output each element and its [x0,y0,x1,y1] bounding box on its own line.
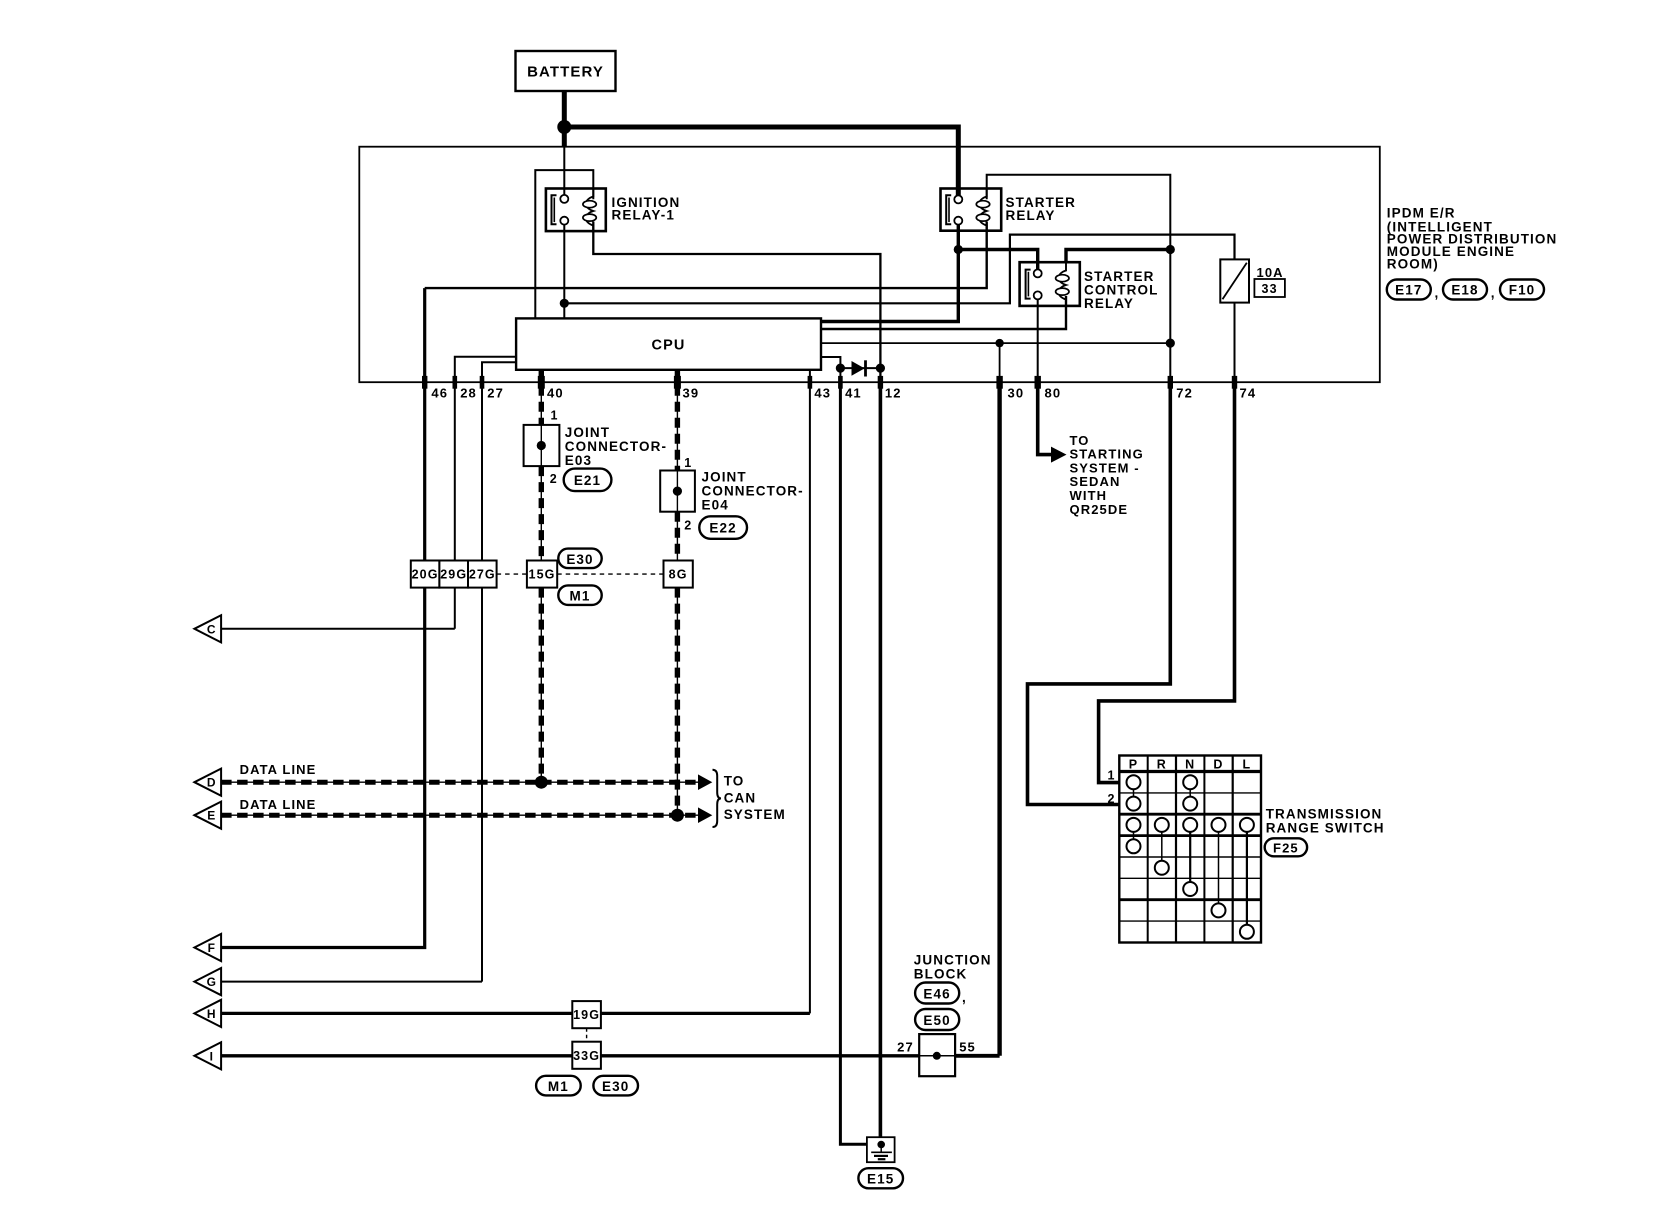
svg-text:L: L [1243,757,1252,771]
svg-text:E04: E04 [702,497,729,512]
svg-text:12: 12 [885,385,902,400]
switch contact links [1133,789,1135,796]
wire pin 72 lower to range switch row 2 [1028,382,1171,804]
fuse F 10A [1220,259,1285,302]
svg-text:F10: F10 [1509,283,1536,298]
junction block label [914,952,992,981]
junction node pin39-E [671,809,684,822]
IPDM E/R label block [1387,206,1558,272]
connector ref F10 [1500,280,1544,300]
svg-text:27: 27 [897,1040,914,1055]
junction node pin40-D [535,776,548,789]
wire fuse feed [564,235,1234,304]
svg-text:TO: TO [1070,433,1090,448]
svg-text:CONNECTOR-: CONNECTOR- [702,483,804,498]
triangle connector D [194,769,221,796]
svg-text:E: E [207,809,216,823]
wire starter relay coil top to pin 72 net [987,175,1171,382]
starter control relay STARTER CONTROL RELAY [1020,262,1159,311]
ignition relay IGNITION RELAY-1 [546,189,680,232]
svg-text:30: 30 [1008,385,1025,400]
transmission range switch F25 [1107,756,1261,943]
svg-text:SYSTEM -: SYSTEM - [1070,460,1140,475]
connector ref M1 upper [558,585,601,605]
wire CAN data line D [221,774,712,790]
connector ref E30 upper [558,549,601,569]
pin 74 [1232,376,1256,400]
connector ref E22 [699,516,747,539]
battery B1 [516,51,616,91]
svg-text:RELAY-1: RELAY-1 [612,207,675,222]
svg-text:E30: E30 [566,552,593,567]
svg-text:74: 74 [1240,385,1257,400]
svg-text:27: 27 [487,385,504,400]
connector ref E46 [915,983,967,1006]
wire starter control relay coil bottom to CPU [821,296,1066,329]
svg-text:IPDM E/R: IPDM E/R [1387,206,1456,221]
wire ignition relay contact feed [563,147,565,195]
svg-text:E21: E21 [574,473,601,488]
connector ref E30 lower [593,1076,638,1096]
wire pin 30 lower [997,382,1001,1056]
joint connector E04 [660,456,804,533]
svg-text:P: P [1129,757,1138,771]
transmission range switch label [1266,807,1385,836]
svg-text:G: G [207,975,217,989]
svg-text:2: 2 [550,472,558,486]
svg-text:F25: F25 [1273,840,1299,855]
junction node pin 72 tap [1166,339,1175,348]
wire junction block to pin 30 [955,1054,1000,1058]
pin 72 [1168,376,1193,400]
wire CPU to pin 30 / pin 72 [821,342,1170,344]
svg-text:1: 1 [551,409,559,423]
svg-text:15G: 15G [529,568,556,582]
wire pin 46 net to triangle F [423,288,426,382]
svg-text:40: 40 [547,385,564,400]
wire starter contact to starter control relay contact [958,250,1037,270]
wire dashed link 27G-15G [497,573,527,575]
svg-text:8G: 8G [669,568,688,582]
svg-text:BATTERY: BATTERY [527,64,604,81]
pin 80 [1035,376,1062,400]
svg-text:80: 80 [1045,385,1062,400]
junction node diode anode [836,364,845,373]
ground terminal 33G [572,1042,601,1069]
svg-text:RELAY: RELAY [1006,208,1056,223]
junction battery node [557,120,571,134]
wire pin 43 [809,370,811,1014]
svg-text:1: 1 [1107,769,1115,783]
switch contact circles [1127,775,1141,789]
wire CAN data line E [221,807,712,823]
svg-text:DATA LINE: DATA LINE [240,762,317,777]
wire starter control relay contact bottom to pin 80 [1037,299,1039,382]
junction node pin 12 net [876,364,885,373]
svg-text:1: 1 [684,456,692,470]
wire ignition relay coil bottom to pin 12 net [593,222,880,383]
svg-text:27G: 27G [469,568,496,582]
pin 46 [422,376,448,400]
wire ignition relay coil top to CPU [535,170,593,318]
connector ref E18 [1443,280,1496,301]
wire pin 41 lower [839,368,841,382]
wire dashed link 19G-33G [586,1028,588,1042]
svg-text:ROOM): ROOM) [1387,257,1439,272]
ground terminal 29G [439,561,468,588]
svg-text:29G: 29G [440,568,467,582]
ground terminal 15G [527,561,557,588]
svg-text:43: 43 [814,385,831,400]
wire battery feed [562,91,567,147]
brace to CAN system [713,770,722,827]
junction node battery-fuse branch [560,299,569,308]
wire pin 12 lower to ground [879,382,883,1144]
svg-text:RANGE SWITCH: RANGE SWITCH [1266,820,1385,835]
wire CPU to diode [821,357,840,368]
svg-text:M1: M1 [548,1079,569,1094]
ground terminal 20G [411,561,440,588]
wire fuse bottom to pin 74 [1234,303,1236,383]
ground terminal 8G [664,561,693,588]
wire triangle G to pin 27 [221,981,482,983]
triangle connector I [194,1042,221,1069]
svg-text:28: 28 [460,385,477,400]
svg-text:,: , [1435,286,1440,301]
svg-text:E22: E22 [709,521,736,536]
triangle connector C [194,615,221,642]
svg-text:JOINT: JOINT [702,469,747,484]
IPDM E/R enclosure box [359,147,1380,383]
svg-text:2: 2 [684,519,692,533]
wire CPU left to pin 27 [482,362,516,981]
diode D1 [852,360,866,376]
svg-text:CONNECTOR-: CONNECTOR- [565,439,667,454]
pin 28 [453,376,477,400]
ground G E15 [867,1137,895,1162]
pin 39 [674,376,699,400]
svg-text:I: I [210,1049,214,1063]
wire dashed link 15G-8G [557,573,663,575]
connector ref E50 [915,1009,959,1030]
svg-text:RELAY: RELAY [1084,296,1134,311]
wire starter relay contact bottom [821,225,958,322]
pin 27 [480,376,504,400]
junction node starter contact branch [954,245,963,254]
svg-text:E50: E50 [923,1013,950,1028]
CPU U1 [516,318,821,369]
pin 40 [538,376,564,400]
junction node pin 30 tap [995,339,1003,347]
junction node pin72-coil [1166,245,1175,254]
svg-text:E46: E46 [923,987,950,1002]
svg-text:19G: 19G [573,1008,600,1022]
pin 30 [996,376,1024,400]
wire CPU left to pin 28 [455,357,516,629]
triangle connector E [194,802,221,829]
svg-text:E15: E15 [867,1172,894,1187]
svg-text:TO: TO [724,774,745,789]
svg-text:R: R [1157,757,1167,771]
svg-text:,: , [962,990,967,1005]
connector ref E15 [858,1168,903,1188]
wire diode link [840,367,880,369]
svg-text:10A: 10A [1257,265,1284,280]
pin 41 [838,376,862,400]
wire pin 74 lower to range switch row 1 [1099,382,1235,782]
connector ref E21 [564,469,612,492]
svg-text:,: , [1491,286,1496,301]
svg-text:SYSTEM: SYSTEM [724,807,786,822]
svg-text:QR25DE: QR25DE [1070,502,1129,517]
triangle connector G [194,968,221,995]
ground terminal 27G [468,561,497,588]
svg-text:33G: 33G [573,1049,600,1063]
svg-text:M1: M1 [570,589,591,604]
wire triangle I to junction block [221,1054,919,1057]
wire ignition relay contact bottom to CPU [563,225,565,319]
svg-text:E30: E30 [602,1079,629,1094]
svg-text:55: 55 [959,1040,976,1055]
pin 43 [808,376,831,400]
joint connector E03 [524,409,667,487]
connector ref F25 [1265,838,1307,856]
svg-text:41: 41 [845,385,862,400]
ground terminal 19G [572,1001,601,1028]
wire triangle C to pin 28 [221,628,455,630]
svg-text:STARTING: STARTING [1070,447,1144,462]
svg-text:CPU: CPU [652,338,686,354]
svg-text:BLOCK: BLOCK [914,967,968,982]
triangle connector H [194,1000,221,1027]
svg-text:33: 33 [1262,282,1278,296]
starter relay STARTER RELAY [941,189,1076,231]
svg-text:46: 46 [431,385,448,400]
svg-text:72: 72 [1176,385,1193,400]
wire pin 40 CAN dashed [540,370,542,782]
connector ref E17 [1387,280,1440,301]
svg-text:WITH: WITH [1070,488,1108,503]
node TO CAN SYSTEM label [724,774,786,822]
svg-text:C: C [207,622,217,636]
wire starter relay coil bottom to pin 46 [425,222,987,289]
svg-text:N: N [1185,757,1195,771]
wire pin 30 upper [999,343,1001,382]
svg-text:H: H [207,1007,217,1021]
svg-text:E18: E18 [1451,283,1478,298]
switch table frame [1119,756,1261,943]
svg-text:JOINT: JOINT [565,425,610,440]
wire pin 39 CAN dashed [676,370,678,815]
svg-text:E03: E03 [565,453,592,468]
wire triangle H to pin 43 [221,1012,810,1015]
svg-text:SEDAN: SEDAN [1070,474,1121,489]
svg-text:D: D [1213,757,1223,771]
pin 12 [878,376,902,400]
svg-text:2: 2 [1107,792,1115,806]
junction block box [919,1034,955,1076]
wire starter control relay coil top to pin 72 net [1066,250,1170,263]
svg-text:JUNCTION: JUNCTION [914,952,992,967]
triangle connector F [194,934,221,961]
svg-text:CAN: CAN [724,791,757,806]
svg-text:F: F [208,941,216,955]
svg-text:DATA LINE: DATA LINE [240,797,317,812]
svg-text:39: 39 [683,385,700,400]
svg-text:D: D [207,776,217,790]
svg-text:20G: 20G [412,568,439,582]
svg-text:E17: E17 [1395,283,1422,298]
connector ref M1 lower [536,1076,581,1096]
wire pin 80 lower with arrow to starting system [1038,382,1052,454]
